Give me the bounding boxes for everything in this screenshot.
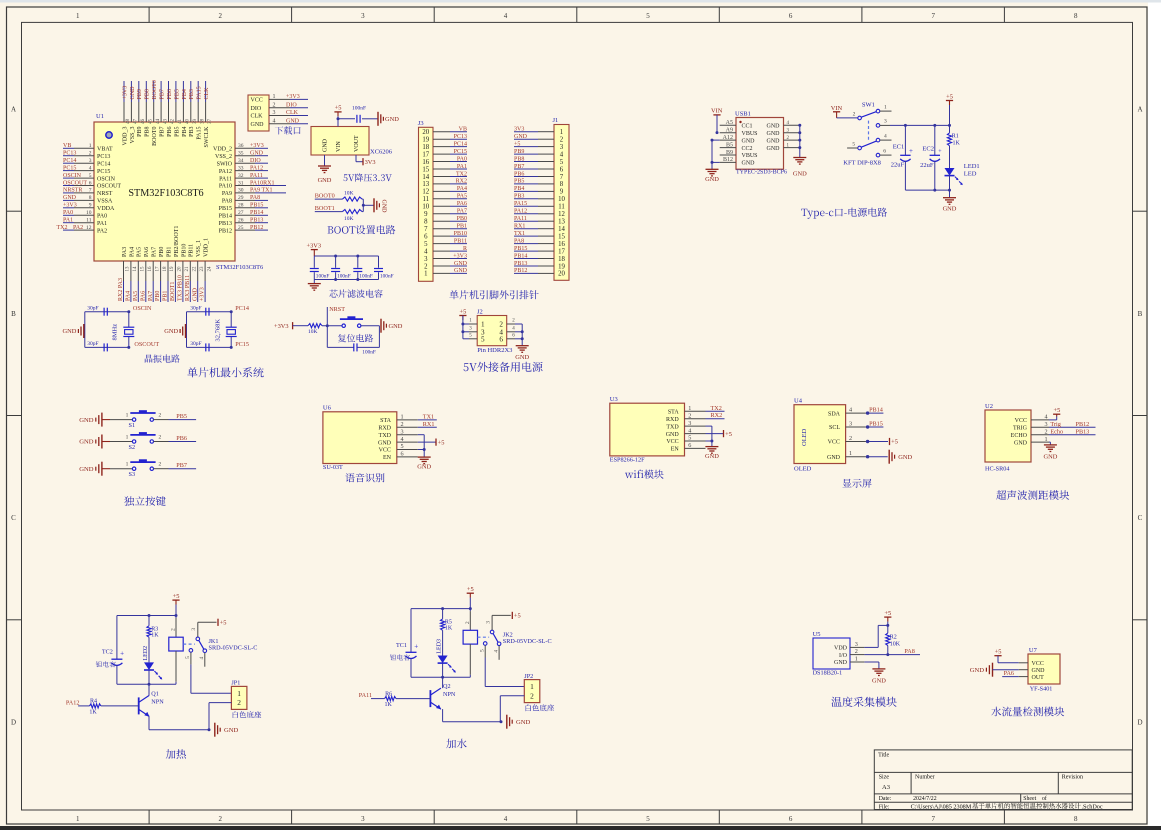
power +5 at XC6206: [334, 105, 341, 117]
svg-text:44: 44: [156, 119, 161, 125]
svg-text:PC15: PC15: [235, 341, 249, 348]
svg-text:EC2: EC2: [922, 146, 934, 153]
svg-text:4: 4: [424, 248, 428, 255]
svg-text:PA7: PA7: [148, 291, 154, 301]
svg-text:GND: GND: [793, 171, 807, 178]
wire U6 pin3 to pin5: [418, 435, 426, 451]
svg-text:6: 6: [424, 233, 428, 240]
svg-text:Pin HDR2X3: Pin HDR2X3: [477, 347, 512, 354]
svg-text:18: 18: [558, 256, 565, 263]
svg-text:4: 4: [884, 133, 887, 139]
title mcu minimum system: [187, 367, 263, 377]
svg-text:6: 6: [789, 12, 793, 20]
wire relay water top rail: [411, 607, 472, 610]
wire U6 pin1 / net label TX1: [418, 413, 437, 420]
svg-text:TX2: TX2: [57, 225, 68, 231]
svg-text:37: 37: [208, 119, 213, 125]
svg-text:+5: +5: [725, 431, 732, 438]
svg-text:TXD: TXD: [666, 424, 679, 430]
svg-text:2: 2: [219, 12, 223, 20]
svg-text:PB15: PB15: [869, 420, 883, 427]
svg-text:1: 1: [688, 405, 691, 412]
svg-text:1: 1: [126, 462, 129, 468]
connector download-port body: [248, 95, 269, 131]
part name SU-03T: [323, 464, 343, 471]
svg-text:40: 40: [186, 119, 191, 125]
svg-text:1: 1: [401, 414, 404, 421]
wire JP1 pin2 to ground: [209, 703, 231, 730]
wire U3 pin2 / net label RX2: [706, 412, 725, 419]
capacitor TC2 tantalum: [102, 616, 124, 685]
svg-text:BOOT1: BOOT1: [315, 205, 335, 212]
ground USB1 left: [705, 169, 719, 183]
svg-text:PC15: PC15: [63, 165, 76, 171]
power +5 at relay JK1 common: [198, 619, 227, 637]
svg-text:32,768K: 32,768K: [215, 319, 222, 342]
svg-text:16: 16: [558, 241, 565, 248]
wire SW1 pin3 to power rail: [880, 124, 951, 127]
svg-text:B: B: [11, 310, 16, 318]
part name HC-SR04: [985, 466, 1009, 473]
relay JK1 coil: [169, 616, 183, 685]
svg-text:USB1: USB1: [735, 111, 751, 118]
wire U3 pin3 to pin5: [706, 426, 714, 442]
connector USB1 left pins: [720, 120, 758, 167]
title water: [446, 739, 466, 749]
title crystal circuit: [145, 354, 180, 362]
svg-text:PC15: PC15: [97, 169, 110, 175]
module U3 pins 1-6: [666, 405, 706, 453]
svg-text:1: 1: [273, 94, 276, 100]
svg-text:+3V3: +3V3: [250, 143, 264, 149]
svg-text:6: 6: [688, 442, 691, 449]
capacitor 100nF reset: [327, 326, 379, 356]
svg-text:Sheet: Sheet: [1023, 796, 1036, 802]
svg-text:1: 1: [530, 682, 534, 691]
button S2: [126, 432, 162, 451]
svg-text:GND: GND: [834, 660, 848, 666]
svg-text:2: 2: [530, 691, 534, 700]
svg-text:RXD: RXD: [378, 426, 391, 432]
svg-text:PB5: PB5: [176, 413, 187, 420]
svg-text:RX2: RX2: [456, 179, 467, 185]
svg-text:.SchDoc: .SchDoc: [1082, 803, 1103, 810]
power +5 at relay circuit water: [467, 586, 474, 609]
svg-text:8: 8: [1074, 815, 1078, 823]
svg-text:GND: GND: [454, 268, 468, 274]
svg-text:PB5: PB5: [174, 127, 180, 137]
svg-text:PC14: PC14: [97, 161, 110, 167]
power +5 above R1: [946, 93, 953, 125]
power +5 at U7: [994, 649, 1018, 663]
svg-text:GND: GND: [742, 138, 756, 144]
svg-text:4: 4: [273, 119, 276, 125]
svg-text:U1: U1: [96, 113, 104, 120]
svg-text:B: B: [1138, 310, 1143, 318]
svg-text:24: 24: [207, 266, 212, 272]
svg-text:GND: GND: [827, 455, 841, 461]
power +5 above R2: [884, 610, 891, 633]
power +5 at relay JK2 common: [492, 612, 521, 630]
wire U3 pin1 / net label TX2: [706, 405, 725, 412]
part name Pin HDR2X3: [477, 347, 512, 354]
svg-text:5: 5: [424, 241, 428, 248]
svg-text:GND: GND: [767, 131, 781, 137]
svg-text:PB5: PB5: [514, 179, 524, 185]
svg-text:8MHz: 8MHz: [111, 324, 118, 341]
svg-text:20: 20: [422, 129, 429, 136]
svg-text:PB13: PB13: [514, 261, 527, 267]
title reset circuit: [338, 334, 373, 342]
switch SW1 KFT DIP-8X8: [843, 102, 891, 167]
wire filter cap top bus: [314, 255, 378, 258]
wire USB1 ground bus left: [711, 139, 720, 170]
svg-text:PA12: PA12: [250, 165, 263, 171]
title 5V-to-3.3V: [343, 173, 391, 181]
wire relay JK2 pin5 to JP2: [485, 646, 524, 687]
svg-text:Q2: Q2: [443, 683, 451, 690]
part name OLED: [794, 466, 812, 473]
svg-text:1: 1: [126, 412, 129, 418]
svg-text:PA6: PA6: [144, 247, 150, 257]
svg-text:PB0: PB0: [457, 216, 467, 222]
svg-text:VSSA: VSSA: [97, 199, 113, 205]
title heating: [166, 749, 186, 759]
svg-text:RX1: RX1: [514, 224, 525, 230]
svg-text:48: 48: [126, 119, 131, 125]
power +5 at U2 VCC: [1049, 407, 1060, 420]
svg-text:10K: 10K: [344, 216, 354, 222]
connector JP1 body: [231, 680, 247, 710]
svg-text:DIO: DIO: [251, 106, 262, 112]
connector J3 pins 20-1 with net labels: [422, 127, 467, 278]
net label PC15: [235, 341, 249, 348]
svg-text:PC13: PC13: [63, 151, 76, 157]
title block: [874, 750, 1132, 810]
svg-text:PA2: PA2: [73, 225, 83, 231]
svg-text:3: 3: [424, 256, 428, 263]
svg-text:JP2: JP2: [524, 673, 533, 680]
svg-text:10K: 10K: [344, 191, 354, 197]
svg-text:PA10RX1: PA10RX1: [250, 180, 274, 186]
svg-text:STA: STA: [668, 410, 680, 416]
svg-text:PA6: PA6: [457, 201, 467, 207]
title voice recognition: [345, 473, 384, 482]
svg-text:GND: GND: [454, 261, 468, 267]
svg-text:STA: STA: [380, 418, 392, 424]
svg-text:9: 9: [560, 189, 564, 196]
svg-text:+3V3: +3V3: [274, 323, 289, 330]
capacitor 100nF filter #1: [310, 269, 330, 280]
module U4 OLED body: [794, 397, 846, 463]
svg-text:19: 19: [170, 266, 175, 272]
wire U4 SDA / net label PB14: [866, 407, 884, 414]
svg-text:PB11: PB11: [189, 244, 195, 257]
ground at button S3: [79, 462, 110, 476]
svg-text:1K: 1K: [151, 633, 159, 639]
wire U6 pin2 / net label RX1: [418, 421, 437, 428]
svg-text:GND: GND: [385, 116, 399, 123]
svg-text:PB13: PB13: [250, 218, 263, 224]
svg-text:LED2: LED2: [143, 646, 149, 661]
title display: [843, 479, 872, 488]
svg-text:+3V3: +3V3: [122, 86, 128, 100]
svg-text:GND: GND: [516, 719, 531, 726]
svg-text:PB14: PB14: [869, 407, 883, 414]
svg-text:100nF: 100nF: [380, 274, 394, 280]
svg-text:GND: GND: [381, 200, 387, 214]
wire filter cap legs: [314, 256, 378, 280]
svg-text:J3: J3: [418, 120, 424, 127]
svg-text:5: 5: [560, 159, 564, 166]
svg-text:20: 20: [558, 271, 565, 278]
svg-text:Revision: Revision: [1062, 775, 1083, 781]
svg-text:PB4: PB4: [514, 186, 524, 192]
svg-text:S2: S2: [129, 444, 136, 451]
svg-text:GND: GND: [705, 453, 719, 460]
svg-text:TX3 PB10: TX3 PB10: [178, 275, 184, 301]
svg-text:3: 3: [401, 428, 404, 435]
power +5 at U6: [418, 439, 445, 447]
capacitor 100nF at XC6206: [352, 106, 366, 123]
svg-text:EN: EN: [671, 447, 680, 453]
svg-text:J1: J1: [553, 117, 559, 124]
svg-text:DIO: DIO: [286, 102, 297, 108]
svg-text:Title: Title: [878, 753, 889, 759]
svg-text:+5: +5: [884, 610, 891, 617]
svg-text:TX2: TX2: [711, 405, 722, 412]
relay JK2 contacts: [478, 621, 501, 653]
svg-text:D: D: [11, 718, 16, 726]
svg-text:PA5: PA5: [133, 291, 139, 301]
svg-text:PB6: PB6: [167, 89, 173, 99]
button S3: [126, 459, 162, 478]
svg-text:TX1: TX1: [514, 231, 525, 237]
svg-text:2: 2: [401, 421, 404, 428]
power +5 at U4 VCC: [866, 438, 898, 446]
svg-text:CLK: CLK: [251, 114, 264, 120]
svg-text:7: 7: [560, 174, 564, 181]
svg-text:GND: GND: [515, 354, 529, 361]
capacitor EC2 22uF: [920, 125, 942, 190]
svg-text:PA9 TX1: PA9 TX1: [250, 188, 273, 194]
svg-text:NRSTR: NRSTR: [63, 188, 82, 194]
resistor R1 1K: [947, 125, 960, 168]
svg-text:2: 2: [237, 698, 241, 707]
connector USB1 right pins: [767, 121, 802, 152]
svg-text:U2: U2: [985, 403, 993, 410]
svg-text:NPN: NPN: [443, 691, 456, 698]
wire U2 TRIG / net labels Trig PB12: [1049, 421, 1096, 428]
svg-text:R5: R5: [445, 619, 452, 625]
svg-text:GND: GND: [970, 667, 985, 674]
svg-text:A5: A5: [726, 120, 733, 126]
capacitor 100nF filter #2: [331, 269, 351, 280]
svg-text:OUT: OUT: [1032, 675, 1045, 681]
svg-text:C:\Users\AJ\085 2308M: C:\Users\AJ\085 2308M: [911, 803, 972, 810]
resistor 10K BOOT0: [343, 191, 364, 202]
svg-text:PA11: PA11: [250, 173, 263, 179]
svg-text:4: 4: [1045, 414, 1048, 421]
svg-text:PA7: PA7: [152, 247, 158, 257]
svg-text:PA11: PA11: [219, 176, 232, 182]
svg-text:PB7: PB7: [160, 127, 166, 137]
svg-text:PA1: PA1: [97, 221, 107, 227]
svg-text:+3V3: +3V3: [200, 287, 206, 301]
svg-text:ESP8266-12F: ESP8266-12F: [610, 456, 645, 463]
svg-text:4: 4: [688, 427, 691, 434]
svg-text:2: 2: [273, 102, 276, 108]
svg-text:PB15: PB15: [250, 203, 263, 209]
svg-text:4: 4: [849, 407, 852, 414]
svg-text:CLK: CLK: [204, 87, 210, 100]
svg-text:3V3: 3V3: [514, 127, 524, 133]
svg-text:U4: U4: [794, 397, 803, 404]
connector download-port pins 1-4: [251, 94, 309, 128]
svg-text:GND: GND: [251, 122, 265, 128]
svg-text:GND: GND: [79, 466, 94, 473]
svg-text:5: 5: [185, 656, 191, 659]
svg-text:PB15: PB15: [514, 246, 527, 252]
svg-text:16: 16: [148, 266, 153, 272]
svg-text:PB7: PB7: [514, 164, 524, 170]
capacitor 30pF / crystal Y2 32.768K circuit: [187, 305, 237, 351]
svg-text:47: 47: [134, 119, 139, 125]
svg-text:21: 21: [185, 266, 190, 272]
svg-text:RX1: RX1: [423, 421, 435, 428]
svg-text:PB3: PB3: [189, 89, 195, 99]
svg-text:GND: GND: [130, 86, 136, 100]
title mcu pin breakout headers: [449, 290, 538, 299]
net label BOOT1: [315, 205, 343, 212]
connector J3 header body: [418, 120, 433, 281]
title type-c power circuit: [801, 208, 887, 219]
svg-text:GND: GND: [514, 134, 528, 140]
svg-text:13: 13: [422, 181, 429, 188]
svg-text:B5: B5: [726, 142, 733, 148]
svg-text:Q1: Q1: [151, 691, 159, 698]
svg-text:VB: VB: [63, 143, 71, 149]
svg-text:7: 7: [931, 815, 935, 823]
svg-text:12: 12: [558, 211, 565, 218]
svg-text:VIN: VIN: [711, 107, 723, 114]
svg-text:1: 1: [126, 434, 129, 440]
svg-text:+5: +5: [1053, 407, 1060, 414]
svg-text:VIN: VIN: [336, 141, 342, 152]
svg-text:PA6: PA6: [140, 291, 146, 301]
svg-text:PB8: PB8: [514, 156, 524, 162]
svg-text:8: 8: [1074, 12, 1078, 20]
net label OSCOUT: [134, 341, 159, 348]
svg-text:PC13: PC13: [454, 134, 467, 140]
white socket label JP2: [526, 704, 555, 711]
svg-text:+5: +5: [891, 439, 898, 446]
svg-text:10K: 10K: [308, 329, 318, 335]
wire button S3 right / net label PB7: [154, 462, 197, 469]
svg-text:VCC: VCC: [1032, 661, 1044, 667]
svg-text:1: 1: [481, 321, 485, 329]
svg-text:+5: +5: [946, 93, 953, 100]
svg-text:STM32F103C8T6: STM32F103C8T6: [216, 264, 263, 271]
wire Q2 emitter to ground: [443, 709, 503, 723]
svg-text:VCC: VCC: [379, 448, 391, 454]
svg-text:22uF: 22uF: [891, 162, 905, 169]
svg-text:B12: B12: [723, 157, 733, 163]
svg-text:R2: R2: [890, 634, 897, 640]
svg-text:11: 11: [423, 196, 430, 203]
svg-text:VBUS: VBUS: [742, 153, 758, 159]
svg-text:+3V3: +3V3: [63, 203, 77, 209]
resistor R2 10K: [886, 633, 901, 656]
capacitor EC1 22uF: [891, 125, 913, 190]
ground of U2: [1043, 442, 1057, 461]
svg-text:2: 2: [465, 621, 471, 624]
svg-text:6: 6: [499, 335, 503, 343]
svg-text:YF-S401: YF-S401: [1030, 686, 1053, 693]
svg-text:File:: File:: [879, 804, 890, 810]
svg-text:1: 1: [849, 450, 852, 457]
svg-text:PA8: PA8: [904, 648, 914, 655]
svg-text:LED1: LED1: [964, 163, 980, 170]
svg-text:PB7: PB7: [176, 462, 187, 469]
svg-text:GND: GND: [164, 328, 178, 335]
svg-text:1: 1: [855, 656, 858, 663]
ground of reset circuit: [381, 319, 403, 333]
power +3V3 at reset circuit: [274, 322, 308, 330]
svg-text:JP1: JP1: [231, 680, 240, 687]
svg-text:OSCIN: OSCIN: [133, 305, 152, 312]
wire EC bottom rail: [905, 189, 951, 192]
svg-text:SU-03T: SU-03T: [323, 464, 343, 471]
svg-text:+5: +5: [514, 141, 520, 147]
ground below XC6206: [318, 155, 332, 184]
svg-text:TXD: TXD: [379, 433, 392, 439]
svg-text:PA7: PA7: [457, 209, 467, 215]
wire reset to ground: [361, 325, 379, 327]
part name ESP8266-12F: [610, 456, 645, 463]
svg-text:OSCOUT: OSCOUT: [134, 341, 159, 348]
svg-text:PB6: PB6: [167, 127, 173, 137]
svg-text:+5: +5: [995, 649, 1002, 656]
svg-text:PB3: PB3: [514, 194, 524, 200]
svg-text:PB13: PB13: [219, 221, 232, 227]
mcu U1 left pins 1-12 with net labels: [57, 143, 122, 234]
power +5 at J2: [459, 308, 466, 339]
capacitor 30pF / crystal Y1 8MHz circuit: [85, 305, 135, 351]
svg-text:1K: 1K: [89, 710, 97, 716]
svg-text:SW1: SW1: [862, 102, 875, 109]
svg-text:PB4: PB4: [182, 89, 188, 99]
svg-text:B9: B9: [726, 150, 733, 156]
svg-text:VSS_1: VSS_1: [196, 240, 202, 257]
svg-text:PA12: PA12: [514, 209, 527, 215]
connector J1 header body: [553, 117, 570, 280]
wire button S3 left: [110, 468, 132, 470]
svg-text:U5: U5: [813, 631, 821, 638]
resistor R3 1K: [147, 616, 159, 663]
relay JK1 contacts: [183, 628, 206, 660]
svg-text:SWCLK: SWCLK: [204, 126, 210, 148]
svg-text:46: 46: [141, 119, 146, 125]
svg-text:5: 5: [401, 443, 404, 450]
svg-text:GND: GND: [417, 464, 431, 471]
svg-text:VBAT: VBAT: [97, 147, 113, 153]
module U2 pins 4-1: [1011, 414, 1049, 447]
module U5 DS18B20 body: [813, 631, 850, 669]
svg-text:HC-SR04: HC-SR04: [985, 466, 1009, 473]
svg-text:R4: R4: [90, 699, 97, 705]
svg-text:6: 6: [560, 166, 564, 173]
